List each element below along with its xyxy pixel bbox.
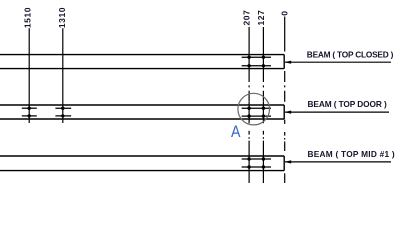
leader arrow TOP CLOSED (284, 61, 391, 64)
beam TOP CLOSED fastener ticks (242, 57, 271, 66)
svg-text:1510: 1510 (23, 7, 33, 28)
leader arrow TOP DOOR (284, 111, 389, 114)
beam TOP CLOSED fastener dots (247, 56, 265, 68)
beam TOP MID #1 fastener ticks (242, 159, 271, 167)
beam TOP DOOR outline (0, 105, 284, 119)
svg-text:BEAM ( TOP CLOSED ): BEAM ( TOP CLOSED ) (307, 49, 394, 59)
svg-text:BEAM ( TOP MID #1 ): BEAM ( TOP MID #1 ) (308, 149, 395, 159)
svg-text:127: 127 (256, 10, 266, 26)
detail circle A (238, 93, 270, 125)
svg-text:0: 0 (280, 11, 290, 16)
svg-text:A: A (231, 123, 241, 141)
centerline x=0 (284, 17, 286, 184)
centerline x=127 (262, 27, 264, 183)
svg-text:1310: 1310 (57, 7, 67, 28)
svg-text:BEAM ( TOP DOOR ): BEAM ( TOP DOOR ) (308, 99, 387, 109)
beam TOP DOOR fastener dots right (247, 107, 265, 118)
svg-text:207: 207 (242, 10, 252, 26)
beam TOP DOOR fastener ticks left (22, 108, 71, 116)
beam TOP CLOSED outline (0, 55, 284, 69)
beam TOP MID #1 fastener dots (247, 157, 265, 168)
centerline x=207 (248, 27, 250, 183)
extension line x=1510 (28, 28, 30, 123)
beam TOP DOOR fastener ticks right (242, 108, 271, 116)
extension line x=1310 (62, 28, 64, 123)
beam TOP DOOR fastener dots left (28, 107, 65, 118)
leader arrow TOP MID #1 (284, 160, 391, 163)
beam TOP MID #1 outline (0, 156, 284, 171)
